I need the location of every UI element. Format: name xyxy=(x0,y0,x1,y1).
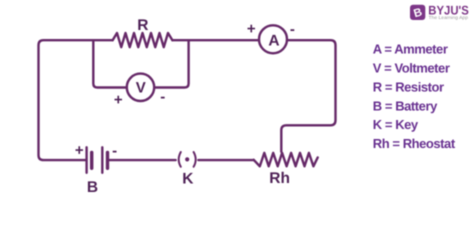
rheostat Rh zigzag xyxy=(254,153,318,166)
ammeter U2 circle xyxy=(259,25,287,53)
battery plate short 2 (thick, -) xyxy=(106,152,109,168)
svg-text:+: + xyxy=(114,91,123,108)
svg-text:B = Battery: B = Battery xyxy=(373,98,438,113)
svg-text:R: R xyxy=(137,17,148,34)
legend list xyxy=(373,42,456,152)
svg-text:V = Voltmeter: V = Voltmeter xyxy=(373,61,450,76)
wire: bottom between battery and key xyxy=(109,159,176,161)
wire: voltmeter branch right vertical xyxy=(154,40,188,87)
svg-text:K = Key: K = Key xyxy=(373,117,419,132)
svg-text:A = Ammeter: A = Ammeter xyxy=(373,42,448,57)
voltmeter U1 circle xyxy=(127,74,154,101)
svg-text:+: + xyxy=(247,20,256,37)
wire: ammeter to right side, down and across to rheostat tap xyxy=(281,40,335,152)
svg-text:The Learning App: The Learning App xyxy=(429,15,469,20)
battery plate long 2 xyxy=(101,147,103,173)
svg-text:Rh: Rh xyxy=(269,170,290,187)
svg-text:B: B xyxy=(87,179,98,196)
svg-text:Rh = Rheostat: Rh = Rheostat xyxy=(373,136,456,151)
BYJU'S logo badge xyxy=(410,5,425,21)
key K contact dot xyxy=(185,157,189,161)
resistor R xyxy=(113,33,173,47)
wire: bottom between key and rheostat xyxy=(198,159,253,161)
svg-text:+: + xyxy=(75,142,84,159)
svg-text:-: - xyxy=(112,142,117,159)
svg-text:K: K xyxy=(182,170,194,187)
svg-text:A: A xyxy=(268,33,279,50)
svg-text:V: V xyxy=(136,79,146,96)
wire: left side loop (top-left corner, left vertical, bottom-left to battery) xyxy=(39,40,113,160)
wire: top between resistor and ammeter xyxy=(172,39,259,41)
svg-text:R = Resistor: R = Resistor xyxy=(373,79,444,94)
key K left bracket xyxy=(179,152,181,167)
battery plate short 1 (thick) xyxy=(90,152,93,168)
battery plate long 1 (+) xyxy=(85,147,87,173)
key K right bracket xyxy=(194,152,196,167)
wire: voltmeter branch left vertical xyxy=(93,40,127,87)
svg-text:-: - xyxy=(160,88,165,105)
svg-text:-: - xyxy=(290,21,295,38)
